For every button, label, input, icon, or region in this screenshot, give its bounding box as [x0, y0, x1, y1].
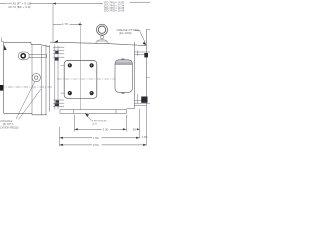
eye bolt shank — [29, 54, 47, 57]
cover screw top-right — [90, 63, 94, 67]
svg-text:3.00: 3.00 — [103, 127, 109, 131]
shaft stub — [0, 85, 3, 91]
extension line x53 — [52, 4, 54, 42]
shaft centerline left view — [0, 86, 53, 88]
svg-text:7.56: 7.56 — [93, 136, 99, 140]
conduit box side view capsule — [115, 60, 133, 93]
dimension 1.78 line — [53, 23, 82, 25]
right view horizontals bottom — [134, 101, 150, 106]
arrow dim 1.78 right — [79, 23, 82, 25]
left view right-end verticals — [46, 45, 49, 115]
cover screw bottom-left — [68, 91, 72, 95]
bottom extension lines — [60, 106, 147, 147]
arrow on silhouette — [53, 40, 58, 43]
grease fitting top right — [144, 53, 148, 57]
right view horizontals top — [134, 52, 150, 55]
tab bars upper — [53, 47, 64, 57]
horizontal centerline — [57, 78, 134, 80]
cover screw top-left — [68, 63, 72, 67]
svg-text:Ø.41: Ø.41 — [93, 123, 99, 125]
eye bolt ring — [18, 52, 29, 60]
dimension line overall top — [0, 3, 103, 5]
arrow at x53 top — [53, 3, 56, 5]
eye bolt base — [95, 39, 109, 43]
tab strip verticals — [55, 45, 58, 110]
eye bolt collar — [100, 35, 104, 39]
svg-text:29.72 [BF + 9.8]: 29.72 [BF + 9.8] — [8, 5, 30, 9]
grease fitting bottom right — [141, 97, 147, 103]
mtg hole arrow — [85, 113, 89, 117]
extension line left x1.5 — [2, 38, 4, 42]
tab blobs upper — [55, 51, 58, 54]
tab bars lower — [53, 100, 64, 106]
right view body verticals — [133, 42, 135, 106]
dim .38 seg — [137, 128, 140, 130]
conduit box cover square — [64, 61, 97, 99]
svg-text:(LOCATION REQD): (LOCATION REQD) — [0, 126, 19, 130]
left view seam — [32, 44, 41, 114]
dim 3.00 line — [74, 128, 126, 130]
svg-text:(EA. END): (EA. END) — [119, 31, 132, 35]
leader grease fitting — [135, 30, 147, 44]
left view: outer body — [4, 42, 47, 115]
mtg hole leader — [87, 116, 92, 121]
top-right header line — [130, 1, 151, 3]
svg-text:1.78: 1.78 — [62, 22, 68, 26]
svg-text:(8) N.P.T.: (8) N.P.T. — [3, 122, 14, 126]
latch ticks — [61, 65, 65, 93]
svg-text:9.50: 9.50 — [93, 143, 99, 147]
grease fitting circle left view — [32, 73, 40, 81]
arrow grease leader — [143, 42, 147, 45]
vertical centerline — [80, 22, 82, 110]
top silhouette line middle/right — [50, 42, 146, 45]
capsule louvers — [115, 61, 132, 65]
leader drain — [16, 82, 41, 120]
mounting foot — [60, 110, 127, 114]
dim 9.50 line — [60, 144, 147, 146]
svg-text:[TD-749] = 19.45: [TD-749] = 19.45 — [104, 9, 125, 13]
dim 7.56 line — [60, 137, 140, 139]
svg-text:1.69: 1.69 — [142, 135, 148, 139]
cover screw bottom-right — [90, 91, 94, 95]
left view corner arrow — [4, 45, 7, 50]
dim 3.00 arrows — [74, 128, 77, 130]
corner bracket top-right — [146, 28, 150, 30]
bottom step right view — [127, 106, 135, 109]
tab blobs lower — [56, 100, 60, 103]
capsule top tick — [121, 59, 124, 93]
svg-text:.38: .38 — [132, 127, 137, 131]
lifting eye bolt ring — [97, 24, 108, 35]
right view right edge — [145, 29, 147, 105]
svg-text:4 MTG HOLES: 4 MTG HOLES — [92, 120, 107, 122]
